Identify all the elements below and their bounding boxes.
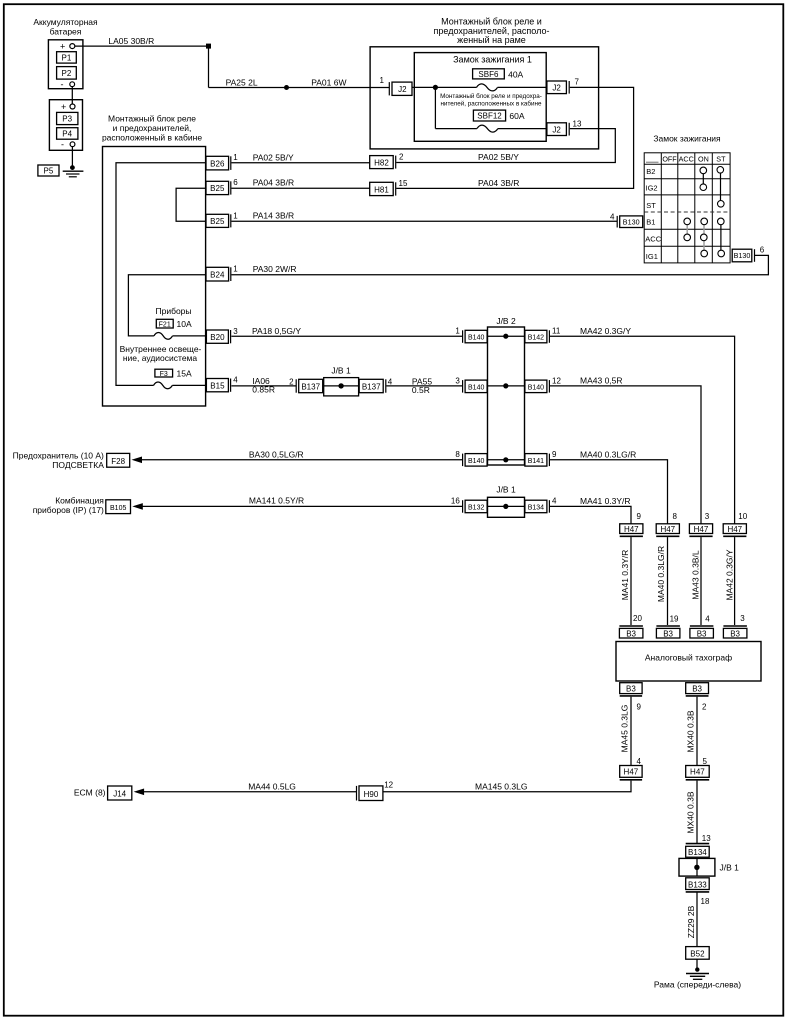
svg-text:3: 3 [705, 512, 710, 521]
connector F28 [107, 453, 130, 467]
svg-text:приборов (IP) (17): приборов (IP) (17) [33, 505, 104, 515]
wire IA06 0.85R [231, 385, 296, 387]
svg-text:3: 3 [455, 376, 460, 385]
svg-text:Монтажный блок реле: Монтажный блок реле [108, 114, 196, 124]
fuse F3 label box [155, 369, 173, 378]
svg-text:Аккумуляторная: Аккумуляторная [33, 17, 98, 27]
dashed separator row ST/B1 [644, 211, 730, 213]
wire MA141 0.5Y/R [141, 505, 463, 507]
connector B132 pin 16 [463, 500, 488, 513]
svg-text:SBF6: SBF6 [478, 70, 499, 79]
connector H82 [370, 156, 396, 169]
wire B3 col6 down to H47 [696, 697, 698, 766]
svg-text:Аналоговый тахограф: Аналоговый тахограф [645, 652, 732, 662]
svg-text:Замок зажигания 1: Замок зажигания 1 [453, 55, 532, 65]
wire B133 to B52 [696, 893, 698, 947]
wire with fuse SBF12 [435, 125, 547, 132]
svg-text:B3: B3 [730, 629, 740, 638]
wire battery1 to battery2 [71, 87, 73, 104]
svg-text:0.85R: 0.85R [252, 385, 275, 395]
wire H47 col3 down to B3 [700, 537, 702, 625]
connector H81 [370, 182, 396, 195]
svg-text:18: 18 [701, 897, 710, 906]
svg-text:J/B 2: J/B 2 [496, 316, 516, 326]
ground (battery) [63, 165, 84, 177]
wire node down to SBF12 branch [434, 87, 436, 128]
svg-text:B3: B3 [663, 629, 673, 638]
svg-text:BA30 0,5LG/R: BA30 0,5LG/R [249, 449, 304, 459]
wire PA14 3B/R [231, 220, 617, 222]
junction box J/B 1 (MA141 row) [488, 484, 525, 517]
connector J2 pin 13 [547, 123, 569, 136]
svg-text:P3: P3 [62, 115, 72, 124]
svg-text:B140: B140 [468, 384, 484, 391]
wire MA40 0.3LG/R to H47 col2 [550, 460, 668, 524]
svg-text:-: - [61, 80, 64, 90]
grey corner mark [646, 161, 659, 163]
ignition switch table grid [644, 153, 730, 263]
connector B142 pin 11 [525, 330, 550, 343]
svg-text:12: 12 [384, 780, 393, 789]
contact line ST B2-ST [720, 170, 722, 204]
svg-text:P1: P1 [62, 54, 72, 63]
connector B3 col2 [656, 626, 680, 638]
internal wire B26 to F3 to B15 [116, 163, 206, 389]
connector B3 col1 [619, 626, 643, 638]
internal wire B24 to F21 to B20 [128, 275, 206, 340]
arrow to B105 [132, 503, 143, 510]
svg-text:2: 2 [399, 153, 404, 162]
svg-text:1: 1 [233, 264, 238, 273]
label Предохранитель ПОДСВЕТКА [13, 451, 105, 470]
connector B130 pin 4 [617, 216, 643, 228]
svg-text:0.5R: 0.5R [412, 385, 430, 395]
svg-text:60A: 60A [509, 111, 524, 121]
connector B3 col3 [690, 626, 714, 638]
connector P3 [57, 112, 78, 124]
svg-text:B137: B137 [301, 382, 320, 391]
fuse SBF6 label box [473, 69, 505, 79]
svg-text:9: 9 [637, 702, 642, 711]
svg-text:B130: B130 [623, 217, 640, 226]
wire H47 col2 down to B3 [667, 537, 669, 625]
svg-text:1: 1 [233, 153, 238, 162]
wire through J/B2 row 3 [488, 457, 525, 462]
svg-text:40A: 40A [508, 70, 523, 80]
svg-text:B140: B140 [468, 335, 484, 342]
wire PA18 0.5G/Y [231, 335, 462, 337]
connector B105 [106, 500, 131, 514]
connector B137 right [359, 379, 386, 392]
svg-text:+: + [61, 102, 66, 112]
wire J2-1 to node [412, 86, 435, 88]
svg-text:1: 1 [380, 76, 385, 85]
svg-text:3: 3 [740, 614, 745, 623]
svg-text:IG1: IG1 [646, 252, 658, 261]
junction box J/B 1 (IA06 row) [324, 365, 359, 396]
cabin relay/fuse box title [102, 114, 202, 143]
connector P1 [57, 52, 77, 63]
svg-text:4: 4 [637, 757, 642, 766]
svg-text:H47: H47 [727, 525, 742, 534]
svg-text:B3: B3 [626, 684, 636, 693]
svg-text:3: 3 [233, 327, 238, 336]
svg-text:1: 1 [233, 211, 238, 220]
connector B133 [686, 878, 710, 892]
cabin relay/fuse box outline [103, 147, 206, 407]
svg-text:B133: B133 [688, 880, 707, 889]
wire MA43 0,5R to H47 col3 [550, 386, 701, 524]
svg-text:B134: B134 [688, 848, 707, 857]
connector H47 col4 [723, 524, 746, 537]
svg-text:B141: B141 [528, 458, 544, 465]
svg-text:H90: H90 [364, 790, 379, 799]
svg-text:B134: B134 [528, 505, 544, 512]
node junction at LA05 corner [206, 44, 211, 49]
svg-text:15: 15 [399, 179, 408, 188]
svg-text:H47: H47 [624, 768, 639, 777]
svg-text:MA41 0.3Y/R: MA41 0.3Y/R [580, 496, 631, 506]
svg-text:PA18 0,5G/Y: PA18 0,5G/Y [252, 326, 301, 336]
svg-text:11: 11 [552, 327, 561, 336]
label IA06 0.85R [252, 376, 275, 395]
connector B141 pin 9 [525, 454, 550, 467]
wire H47 col4 down to B3 [734, 537, 736, 625]
svg-text:7: 7 [575, 78, 580, 87]
svg-text:Приборы: Приборы [155, 306, 191, 316]
svg-text:P5: P5 [44, 167, 54, 176]
svg-text:J2: J2 [552, 125, 561, 134]
wire J2-7 to PA04 row [396, 87, 633, 188]
svg-text:B105: B105 [110, 505, 126, 512]
svg-text:MA145 0.3LG: MA145 0.3LG [475, 781, 527, 791]
svg-text:MA42 0.3G/Y: MA42 0.3G/Y [725, 549, 735, 600]
svg-text:Монтажный блок реле и предохра: Монтажный блок реле и предохра- [440, 92, 542, 100]
svg-text:PA02 5B/Y: PA02 5B/Y [478, 152, 519, 162]
connector B15 [206, 379, 230, 392]
contact circles [684, 167, 725, 257]
connector H90 [357, 786, 383, 801]
svg-text:ACC: ACC [679, 155, 694, 164]
connector B140 pin 8 (row 3) [463, 454, 488, 467]
svg-text:ON: ON [698, 155, 709, 164]
svg-text:H82: H82 [374, 158, 389, 167]
svg-text:4: 4 [233, 375, 238, 384]
wire with fuse SBF6 [435, 84, 547, 91]
svg-text:5: 5 [703, 757, 708, 766]
junction box J/B 2 [488, 316, 525, 465]
svg-text:1: 1 [455, 327, 460, 336]
wire through J/B1 row [488, 504, 525, 509]
arrow to J14 [134, 789, 145, 796]
svg-text:ECM (8): ECM (8) [74, 787, 106, 797]
wire PA55 0.5R [386, 385, 462, 387]
wire BA30 0.5LG/R [141, 459, 463, 461]
svg-text:F28: F28 [111, 457, 125, 466]
svg-text:B142: B142 [528, 335, 544, 342]
svg-text:15A: 15A [177, 369, 192, 379]
svg-text:10A: 10A [177, 319, 192, 329]
svg-text:4: 4 [388, 377, 393, 386]
connector P5 [38, 165, 59, 176]
svg-text:13: 13 [573, 120, 582, 129]
svg-text:9: 9 [552, 450, 557, 459]
wire PA25 2L / PA01 6W [209, 87, 390, 89]
contact line ACC B1-ACC (grey) [686, 221, 688, 237]
connector B140 pin 3 (row 2) [463, 380, 488, 393]
svg-text:B140: B140 [468, 458, 484, 465]
svg-text:4: 4 [705, 615, 710, 624]
wire B52 to ground [696, 959, 698, 968]
connector B52 [686, 947, 710, 960]
connector B134 pin 4 [525, 500, 550, 513]
svg-text:PA14 3B/R: PA14 3B/R [253, 211, 294, 221]
fuse F21 label box [156, 319, 173, 328]
battery2 + terminal [61, 102, 75, 112]
svg-text:Рама (спереди-слева): Рама (спереди-слева) [654, 979, 741, 989]
connector B3 below col6 [686, 683, 709, 696]
svg-text:+: + [60, 42, 65, 52]
node junction on PA25/PA01 wire [284, 85, 289, 90]
svg-text:J/B 1: J/B 1 [331, 365, 351, 375]
junction box J/B 1 (bottom) [679, 858, 739, 876]
svg-text:B24: B24 [210, 271, 225, 280]
svg-text:H81: H81 [374, 185, 389, 194]
svg-text:B3: B3 [697, 629, 707, 638]
svg-text:4: 4 [552, 497, 557, 506]
label Внутреннее освещение аудиосистема [120, 344, 202, 363]
connector H47 col2 [656, 524, 679, 537]
svg-text:4: 4 [610, 213, 615, 222]
connector B137 left [296, 379, 323, 392]
svg-text:MA40 0.3LG/R: MA40 0.3LG/R [580, 449, 636, 459]
wire MA42 0.3G/Y to H47 col4 [550, 336, 735, 524]
svg-text:H47: H47 [660, 525, 675, 534]
svg-text:MA43 0,5R: MA43 0,5R [580, 375, 623, 385]
svg-text:SBF12: SBF12 [477, 112, 502, 121]
battery + terminal [60, 42, 75, 52]
svg-text:P4: P4 [62, 130, 72, 139]
svg-text:B15: B15 [210, 382, 225, 391]
battery - terminal [61, 80, 75, 90]
connector B20 [206, 330, 230, 343]
svg-text:Замок зажигания: Замок зажигания [653, 134, 721, 144]
wire MA44 0.5LG [143, 791, 357, 793]
svg-text:батарея: батарея [50, 27, 82, 37]
connector B130 pin 6 [732, 249, 754, 262]
battery label [33, 17, 98, 37]
wire H47 col1 down to B3 [630, 537, 632, 625]
connector J14 [108, 786, 132, 800]
svg-text:2: 2 [289, 377, 294, 386]
svg-text:J/B 1: J/B 1 [720, 862, 740, 872]
battery2 - terminal [61, 140, 75, 150]
svg-text:B2: B2 [646, 167, 655, 176]
fuse SBF12 label box [473, 110, 505, 121]
svg-text:OFF: OFF [662, 155, 677, 164]
svg-text:MA141 0.5Y/R: MA141 0.5Y/R [249, 496, 304, 506]
connector B24 [206, 267, 231, 281]
connector B140 pin 1 [463, 330, 488, 343]
analog tachograph box [616, 642, 761, 682]
connector B25 pin 1 [206, 214, 231, 227]
battery unit 1 box [48, 40, 83, 89]
svg-text:ПОДСВЕТКА: ПОДСВЕТКА [52, 460, 104, 470]
arrow to F28 [132, 457, 143, 464]
svg-text:женный на раме: женный на раме [457, 35, 526, 45]
svg-text:B25: B25 [210, 184, 225, 193]
svg-text:MA42 0.3G/Y: MA42 0.3G/Y [580, 326, 631, 336]
connector B25 pin 6 [206, 181, 231, 194]
svg-text:MA45 0.3LG: MA45 0.3LG [619, 705, 629, 753]
connector B26 [206, 156, 231, 170]
contact line ON B1-IG1 (grey) [703, 221, 705, 253]
svg-text:8: 8 [455, 450, 460, 459]
frame relay/fuse box outline [370, 47, 598, 149]
svg-text:B130: B130 [734, 251, 751, 260]
svg-text:J2: J2 [552, 84, 561, 93]
svg-text:MA40 0.3LG/R: MA40 0.3LG/R [656, 546, 666, 602]
svg-text:MX40 0.3B: MX40 0.3B [686, 710, 696, 752]
small cabin note text [440, 92, 542, 108]
wire PA30 2W/R to B130-6 [231, 255, 768, 274]
svg-text:6: 6 [233, 178, 238, 187]
svg-text:ST: ST [646, 201, 656, 210]
wire through J/B2 row 2 [488, 383, 525, 388]
svg-text:8: 8 [673, 512, 678, 521]
svg-text:B132: B132 [468, 505, 484, 512]
wire MA41 0.3Y/R to H47 col1 [550, 506, 631, 523]
wire PA02 5B/Y left [231, 162, 369, 164]
svg-text:PA30 2W/R: PA30 2W/R [253, 264, 297, 274]
wire PA04 3B/R left [231, 187, 369, 189]
svg-text:PA25 2L: PA25 2L [226, 78, 258, 88]
svg-text:MA44 0.5LG: MA44 0.5LG [248, 781, 296, 791]
svg-text:PA04 3B/R: PA04 3B/R [478, 178, 519, 188]
svg-text:ACC: ACC [645, 235, 661, 244]
connector H47 col6 [686, 766, 710, 780]
node SBF feed junction [433, 85, 438, 90]
svg-text:B137: B137 [362, 382, 381, 391]
wire B3 col5 down to H47 [630, 697, 632, 766]
svg-text:MA41 0.3Y/R: MA41 0.3Y/R [620, 550, 630, 601]
svg-text:PA04 3B/R: PA04 3B/R [253, 178, 294, 188]
svg-text:F21: F21 [159, 321, 171, 328]
svg-text:16: 16 [451, 497, 460, 506]
frame relay/fuse box title [434, 17, 550, 46]
svg-text:J2: J2 [398, 85, 407, 94]
svg-text:и предохранителей,: и предохранителей, [113, 123, 192, 133]
svg-text:12: 12 [552, 376, 561, 385]
svg-text:10: 10 [738, 512, 747, 521]
connector B3 below col5 [620, 683, 642, 696]
connector J2 pin 7 [547, 81, 569, 94]
svg-text:J/B 1: J/B 1 [496, 484, 516, 494]
connector H47 col5 [620, 766, 642, 780]
contact line ON B2-IG2 [702, 170, 704, 187]
svg-text:B1: B1 [646, 218, 655, 227]
wire LA05 30B/R [75, 45, 209, 47]
svg-text:6: 6 [760, 246, 765, 255]
svg-text:13: 13 [702, 834, 711, 843]
svg-text:PA02 5B/Y: PA02 5B/Y [253, 152, 294, 162]
svg-text:-: - [61, 140, 64, 150]
svg-text:J14: J14 [113, 789, 126, 798]
connector J2 pin 1 [389, 82, 412, 95]
svg-text:PA01 6W: PA01 6W [311, 78, 346, 88]
svg-text:расположенный в кабине: расположенный в кабине [102, 133, 202, 143]
svg-text:F3: F3 [160, 371, 168, 378]
connector H47 col3 [689, 524, 712, 537]
connector B140 pin 12 (row 2 right) [525, 380, 550, 393]
connector B3 col4 [723, 626, 747, 638]
svg-text:H47: H47 [624, 525, 639, 534]
label PA55 0.5R [412, 377, 432, 396]
svg-text:B26: B26 [210, 159, 225, 168]
svg-text:ние, аудиосистема: ние, аудиосистема [123, 353, 198, 363]
ground (frame, front-left) [686, 967, 709, 979]
connector B134 (bottom) [686, 844, 710, 858]
svg-text:9: 9 [637, 512, 642, 521]
svg-text:ZZ29 2B: ZZ29 2B [686, 905, 696, 938]
svg-text:B25: B25 [210, 217, 225, 226]
connector P2 [57, 67, 77, 80]
bridge wire between B25 connectors inside cabin box [176, 188, 206, 221]
wire H47 col6 down to B134 [696, 781, 698, 843]
svg-text:P2: P2 [62, 69, 72, 78]
svg-text:MA43 0.3B/L: MA43 0.3B/L [690, 550, 700, 599]
svg-text:LA05 30B/R: LA05 30B/R [108, 36, 154, 46]
svg-text:20: 20 [633, 614, 642, 623]
contact line ST B1-IG1 [720, 221, 722, 253]
connector H47 col1 [620, 524, 643, 537]
svg-text:B52: B52 [690, 950, 705, 959]
svg-text:IG2: IG2 [646, 184, 658, 193]
table header OFF ACC ON ST [662, 155, 726, 164]
svg-text:B140: B140 [528, 384, 544, 391]
svg-text:H47: H47 [694, 525, 709, 534]
svg-text:B20: B20 [210, 333, 225, 342]
svg-text:19: 19 [670, 615, 679, 624]
svg-text:B3: B3 [626, 629, 636, 638]
table row labels [645, 167, 661, 261]
connector P4 [57, 128, 78, 140]
ignition lock 1 inner box [414, 53, 546, 142]
svg-text:нителей, расположенных в кабин: нителей, расположенных в кабине [440, 99, 542, 107]
svg-text:2: 2 [702, 702, 707, 711]
svg-text:H47: H47 [690, 768, 705, 777]
svg-text:MX40 0.3B: MX40 0.3B [686, 791, 696, 833]
battery unit 2 box [49, 100, 82, 151]
wire J2-13 to PA02 row [396, 129, 615, 163]
wire H47 col5 down to ECM row [383, 781, 631, 792]
svg-text:B3: B3 [692, 684, 702, 693]
wire battery2 to ground [71, 147, 73, 168]
wire through J/B2 row 1 [488, 334, 525, 339]
svg-text:ST: ST [716, 155, 726, 164]
label Комбинация приборов [33, 496, 105, 515]
wire down from junction [208, 46, 210, 87]
